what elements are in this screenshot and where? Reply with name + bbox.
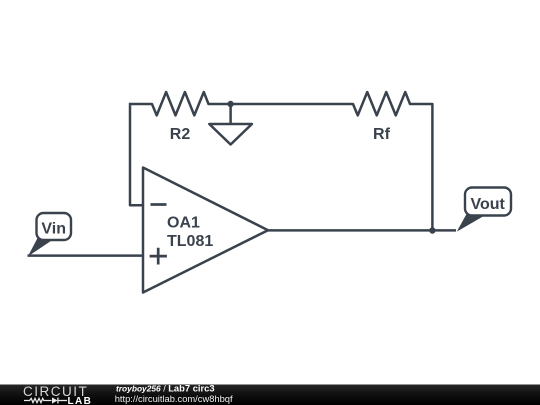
svg-text:http://circuitlab.com/cw8hbqf: http://circuitlab.com/cw8hbqf — [115, 394, 233, 404]
svg-text:LAB: LAB — [68, 396, 93, 405]
svg-text:OA1: OA1 — [167, 215, 200, 232]
svg-text:TL081: TL081 — [167, 233, 213, 250]
svg-text:Vout: Vout — [471, 196, 506, 213]
svg-text:Vin: Vin — [41, 221, 66, 238]
svg-text:R2: R2 — [170, 126, 191, 143]
svg-text:Rf: Rf — [373, 126, 391, 143]
svg-text:troyboy256 / Lab7 circ3: troyboy256 / Lab7 circ3 — [116, 382, 215, 393]
